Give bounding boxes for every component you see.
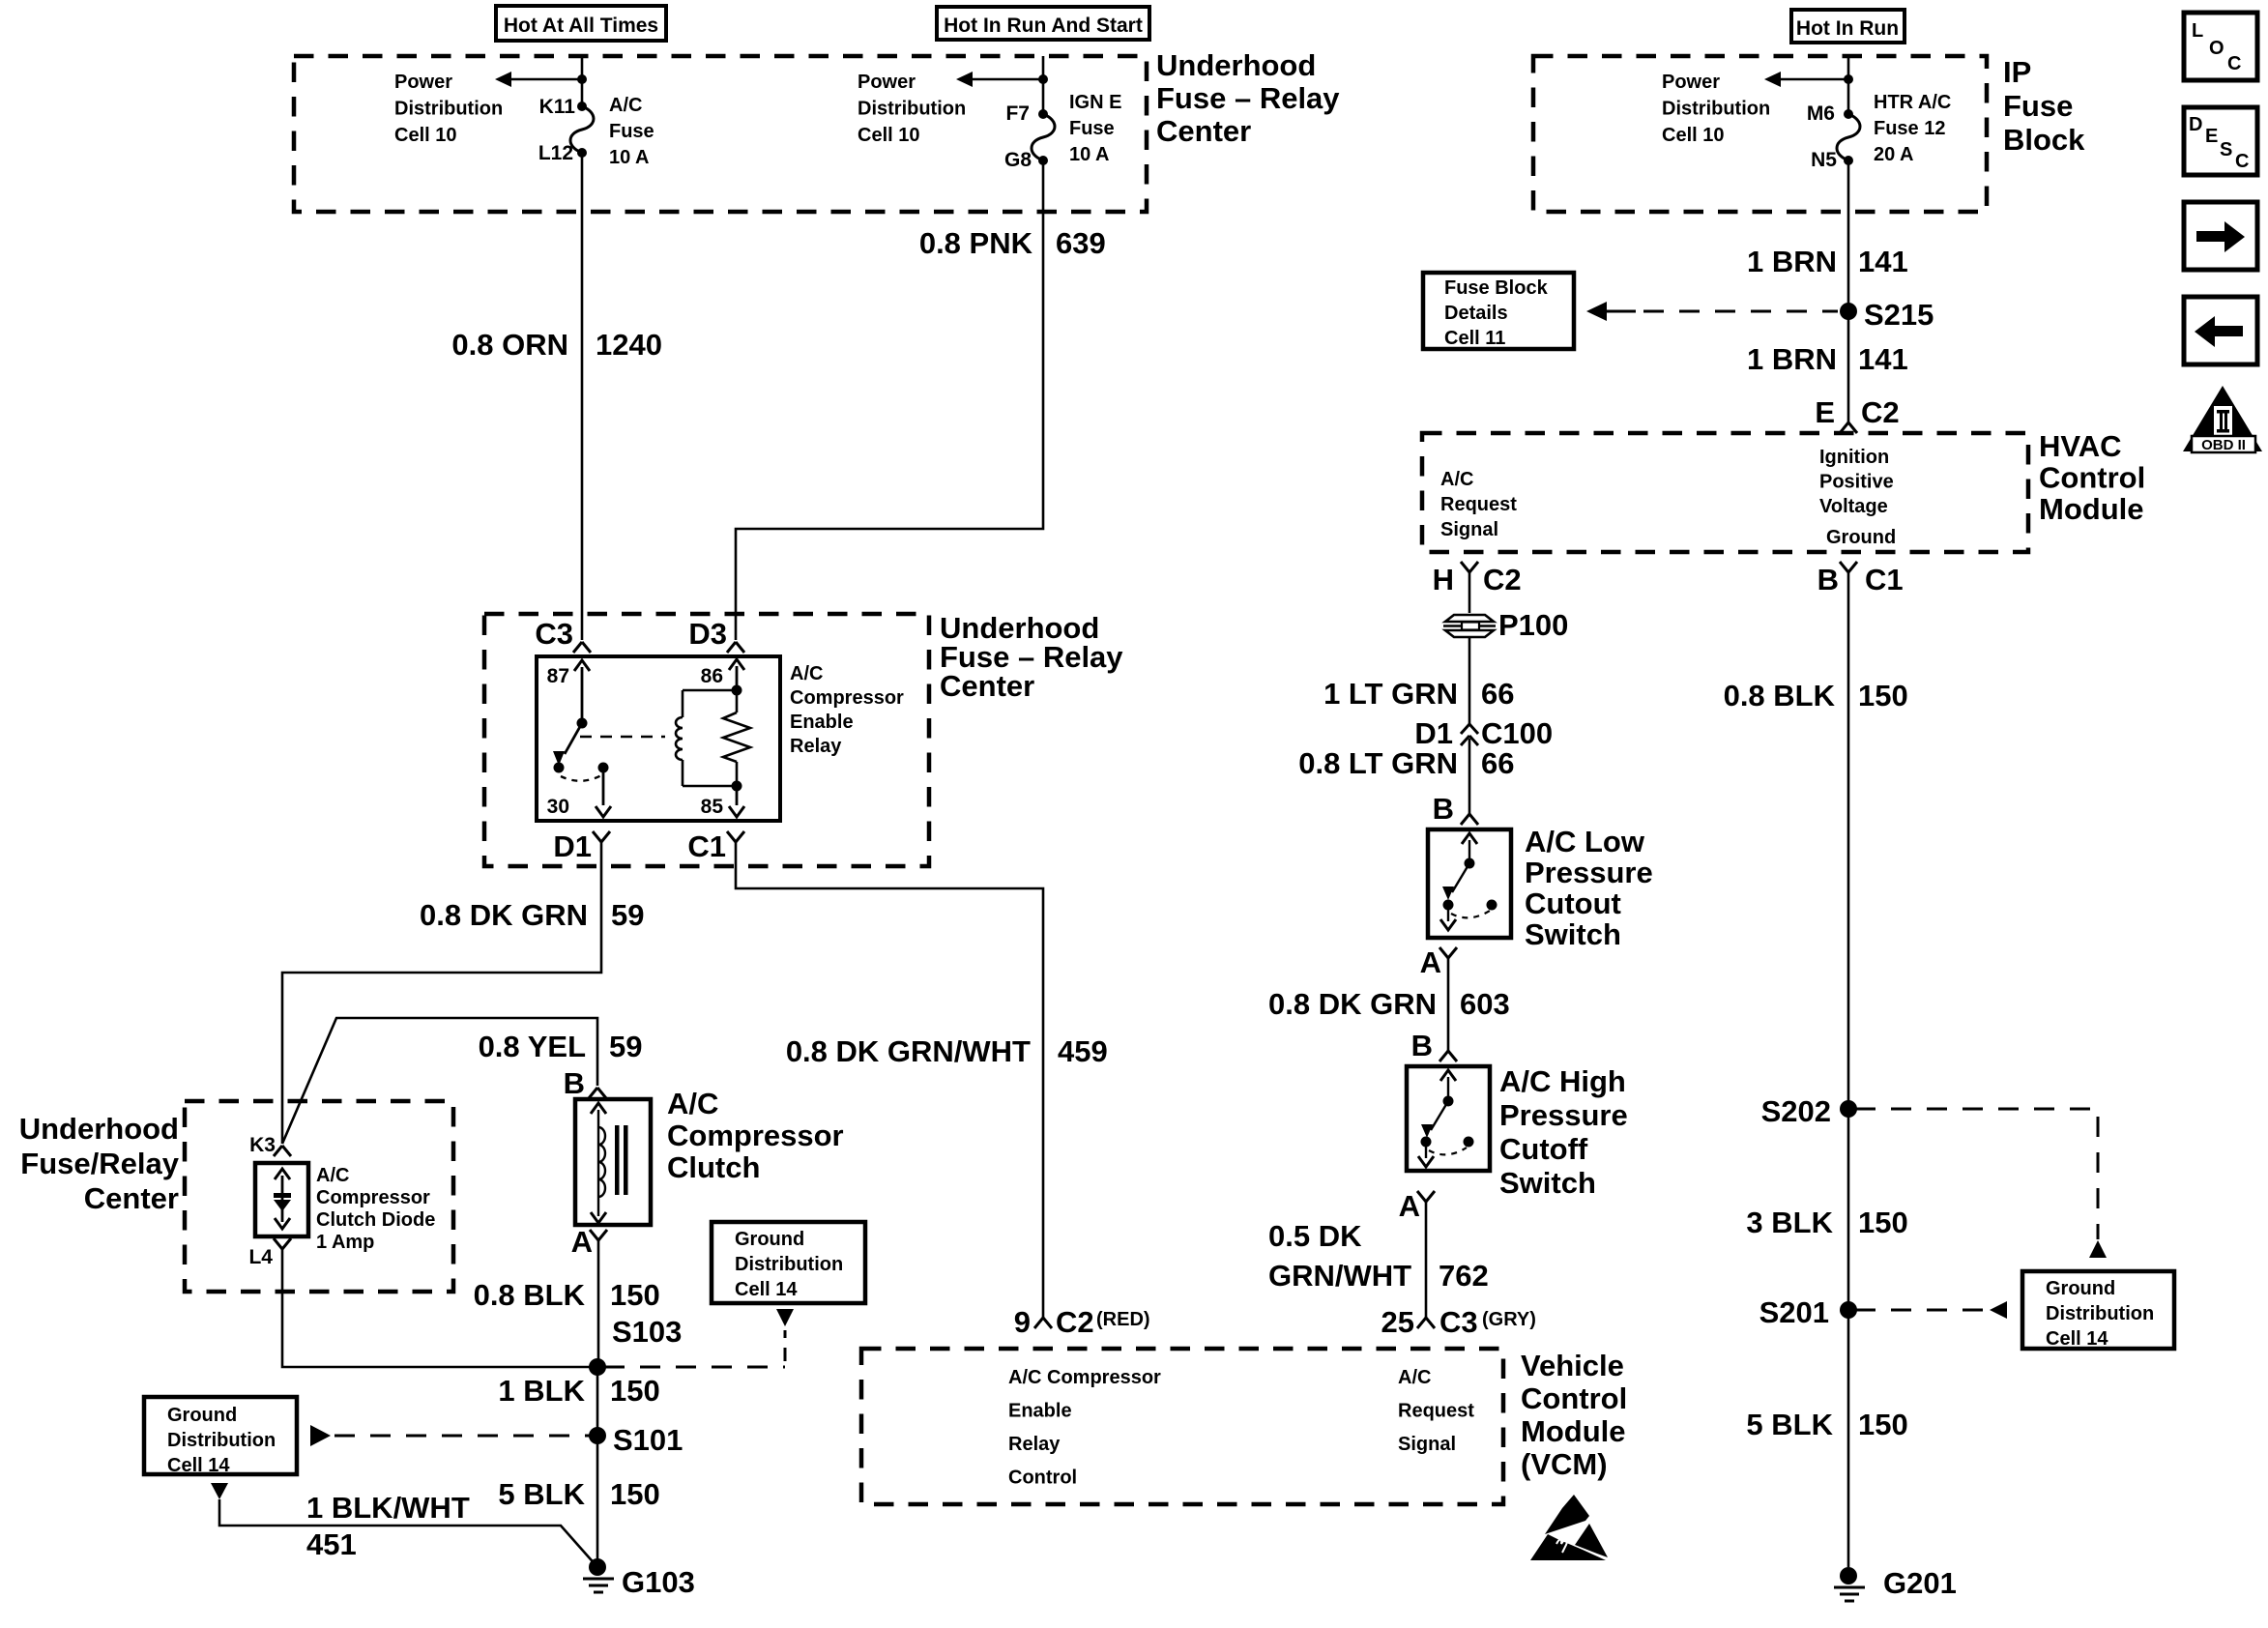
svg-text:A/C: A/C — [1440, 469, 1473, 490]
wire fuse feed A/C — [581, 56, 584, 106]
junction dot IGN E feed — [1038, 74, 1048, 84]
svg-text:S202: S202 — [1761, 1094, 1831, 1128]
icon box arrow left — [2184, 297, 2257, 364]
svg-text:10 A: 10 A — [609, 147, 650, 168]
svg-text:Cutoff: Cutoff — [1499, 1132, 1588, 1166]
svg-text:Control: Control — [1521, 1381, 1627, 1415]
svg-text:Clutch: Clutch — [667, 1150, 760, 1184]
svg-text:1 LT GRN: 1 LT GRN — [1323, 677, 1458, 711]
svg-text:Pressure: Pressure — [1525, 856, 1653, 889]
svg-text:150: 150 — [610, 1278, 660, 1312]
high switch dashed arc — [1429, 1148, 1467, 1154]
connector A chevron high switch — [1417, 1191, 1435, 1202]
svg-text:(VCM): (VCM) — [1521, 1447, 1608, 1481]
svg-text:Power: Power — [858, 72, 916, 93]
connector 9 C2 chevron — [1034, 1318, 1052, 1328]
wire 1 BLK/WHT 451 — [219, 1499, 597, 1567]
svg-text:Clutch Diode: Clutch Diode — [316, 1209, 435, 1231]
svg-text:A/C: A/C — [790, 663, 823, 684]
switch box A/C Low Pressure Cutout Switch — [1428, 829, 1511, 938]
high switch arm — [1431, 1101, 1448, 1130]
connector D1 chevron — [593, 831, 610, 842]
box Fuse Block Details Cell 11 — [1423, 273, 1574, 349]
arrow to Fuse Block Details — [1586, 302, 1607, 321]
svg-text:Request: Request — [1440, 494, 1517, 515]
svg-text:IP: IP — [2003, 55, 2031, 89]
arrow from Ground Distribution (left) to S101 — [310, 1425, 331, 1446]
wire to power distribution arrow (IP) — [1781, 78, 1848, 81]
svg-text:Compressor: Compressor — [316, 1187, 430, 1208]
dashed leader to S101 — [334, 1435, 591, 1438]
svg-text:Cell 10: Cell 10 — [858, 125, 919, 146]
relay contact dashed arc — [561, 775, 601, 781]
svg-text:S215: S215 — [1864, 298, 1934, 332]
svg-text:0.8 PNK: 0.8 PNK — [919, 226, 1033, 260]
dashed box HVAC Control Module — [1422, 433, 2028, 552]
arrow to Ground Distribution Cell 14 (right) — [2089, 1240, 2107, 1258]
wire 0.8 ORN 1240 — [581, 153, 584, 640]
svg-text:Fuse: Fuse — [609, 121, 654, 142]
dashed leader S215 to Fuse Block Details — [1643, 310, 1838, 313]
inline connector D1 C100 — [1461, 724, 1478, 745]
svg-text:S103: S103 — [612, 1315, 682, 1349]
clutch coil L2 — [598, 1127, 605, 1197]
svg-text:Hot In Run And Start: Hot In Run And Start — [944, 15, 1143, 37]
svg-text:Distribution: Distribution — [394, 99, 503, 120]
svg-text:A: A — [1399, 1189, 1420, 1223]
low switch left contact dot — [1443, 900, 1454, 911]
svg-text:HVAC: HVAC — [2039, 429, 2122, 463]
box Ground Distribution Cell 14 (left) — [144, 1397, 297, 1474]
dashed leader S202 — [1855, 1108, 2098, 1111]
clutch coil lead — [597, 1110, 599, 1216]
svg-text:A/C: A/C — [609, 95, 642, 116]
svg-text:Power: Power — [1662, 72, 1720, 93]
svg-text:Underhood: Underhood — [1156, 48, 1316, 82]
connector B C1 chevron — [1840, 562, 1857, 572]
svg-text:D1: D1 — [553, 829, 592, 863]
relay box A/C Compressor Enable Relay — [537, 656, 780, 821]
svg-text:M6: M6 — [1807, 102, 1835, 125]
icon box LOC — [2184, 13, 2257, 80]
svg-text:603: 603 — [1460, 987, 1510, 1021]
wire to power distribution arrow (right) — [973, 78, 1043, 81]
ESD sensitive symbol — [1545, 1495, 1589, 1534]
low switch arm — [1452, 863, 1469, 892]
svg-text:1 BLK/WHT: 1 BLK/WHT — [306, 1491, 470, 1525]
svg-text:150: 150 — [610, 1374, 660, 1408]
svg-text:Vehicle: Vehicle — [1521, 1349, 1624, 1382]
svg-text:5 BLK: 5 BLK — [1746, 1408, 1833, 1441]
ground G103 — [589, 1558, 606, 1576]
svg-text:Switch: Switch — [1525, 917, 1621, 951]
dashed box Underhood Fuse-Relay Center (top) — [294, 56, 1147, 212]
clutch plates — [615, 1125, 620, 1195]
high switch lower lead — [1425, 1142, 1427, 1158]
svg-text:A: A — [571, 1225, 593, 1259]
dashed box Underhood Fuse/Relay Center (diode) — [185, 1101, 453, 1292]
svg-text:141: 141 — [1858, 245, 1908, 278]
svg-text:OBD II: OBD II — [2201, 437, 2246, 453]
svg-text:B: B — [1433, 792, 1454, 826]
svg-text:(GRY): (GRY) — [1482, 1309, 1536, 1330]
connector D3 chevron — [727, 642, 744, 653]
relay coil connections — [683, 690, 737, 786]
svg-text:1240: 1240 — [596, 328, 662, 362]
wire 0.5 DK GRN/WHT 762 — [1425, 1202, 1428, 1318]
label box Hot At All Times — [496, 6, 666, 41]
svg-text:O: O — [2209, 38, 2224, 59]
box Ground Distribution Cell 14 (right) — [2022, 1271, 2174, 1349]
connector L4 chevron — [274, 1238, 291, 1249]
high switch left contact dot — [1421, 1137, 1432, 1148]
svg-text:GRN/WHT: GRN/WHT — [1268, 1259, 1411, 1293]
svg-text:S101: S101 — [613, 1423, 683, 1457]
fuse F1 A/C Fuse 10A — [570, 106, 594, 153]
svg-text:0.8 DK GRN: 0.8 DK GRN — [1268, 987, 1437, 1021]
high switch right contact dot — [1464, 1137, 1474, 1148]
svg-text:G201: G201 — [1883, 1566, 1957, 1600]
wire 1 BRN 141 (upper) — [1847, 160, 1850, 422]
svg-text:150: 150 — [1858, 679, 1908, 712]
diode lead — [281, 1176, 284, 1222]
low switch pivot dot — [1465, 858, 1475, 869]
svg-text:639: 639 — [1056, 226, 1106, 260]
svg-text:Distribution: Distribution — [1662, 99, 1770, 120]
svg-text:C100: C100 — [1481, 716, 1553, 750]
svg-text:5 BLK: 5 BLK — [498, 1477, 585, 1511]
svg-text:C: C — [2227, 53, 2241, 74]
high switch upper lead — [1447, 1077, 1449, 1101]
svg-text:0.8 BLK: 0.8 BLK — [474, 1278, 586, 1312]
switch box A/C High Pressure Cutoff Switch — [1407, 1066, 1490, 1171]
svg-text:59: 59 — [611, 898, 644, 932]
svg-text:Details: Details — [1444, 303, 1508, 324]
fuse F2 IGN E Fuse 10A — [1032, 114, 1055, 160]
wire 0.8 BLK 150 / 3 BLK / 5 BLK ground run — [1847, 572, 1850, 1567]
splice S101 — [589, 1427, 606, 1444]
connector B chevron low switch — [1461, 814, 1478, 825]
svg-text:Enable: Enable — [790, 712, 854, 733]
relay switch arm — [565, 723, 582, 754]
connector C3 chevron — [573, 642, 591, 653]
svg-text:N5: N5 — [1811, 149, 1837, 171]
svg-text:C2: C2 — [1483, 563, 1522, 596]
wire 5 BLK 150 — [596, 1436, 599, 1567]
relay actuation dashed link — [580, 736, 665, 738]
svg-text:9: 9 — [1014, 1305, 1031, 1339]
svg-text:L4: L4 — [248, 1246, 273, 1268]
svg-text:59: 59 — [609, 1030, 642, 1063]
label box Hot In Run — [1791, 10, 1905, 43]
svg-text:B: B — [1817, 563, 1839, 596]
svg-text:Distribution: Distribution — [167, 1430, 276, 1451]
svg-text:1 BLK: 1 BLK — [498, 1374, 585, 1408]
connector 25 C3 chevron — [1417, 1318, 1435, 1328]
svg-text:A/C: A/C — [667, 1087, 718, 1120]
svg-text:S: S — [2220, 139, 2232, 160]
svg-text:D1: D1 — [1414, 716, 1453, 750]
svg-text:Ground: Ground — [735, 1229, 804, 1250]
connector C1 chevron — [727, 831, 744, 842]
svg-text:HTR A/C: HTR A/C — [1874, 92, 1951, 113]
connector K3 chevron — [274, 1146, 291, 1156]
svg-text:459: 459 — [1058, 1034, 1108, 1068]
svg-text:Cell 11: Cell 11 — [1444, 328, 1505, 349]
wire fuse feed IGN E — [1042, 56, 1045, 114]
svg-text:Cell 14: Cell 14 — [735, 1279, 798, 1300]
high switch pivot dot — [1443, 1096, 1454, 1107]
diode box A/C Compressor Clutch Diode — [255, 1163, 308, 1236]
svg-text:F7: F7 — [1005, 102, 1030, 125]
svg-text:Cell 14: Cell 14 — [2046, 1328, 2108, 1350]
diode D1 symbol — [274, 1193, 291, 1198]
relay contact pivot dot — [577, 718, 588, 729]
svg-text:C1: C1 — [1865, 563, 1904, 596]
svg-text:Compressor: Compressor — [790, 687, 904, 709]
splice S202 — [1840, 1100, 1857, 1118]
svg-text:Module: Module — [2039, 492, 2144, 526]
low switch right contact dot — [1487, 900, 1497, 911]
pass-through grommet P100 — [1445, 615, 1494, 637]
svg-text:Voltage: Voltage — [1819, 496, 1888, 517]
svg-text:25: 25 — [1381, 1305, 1414, 1339]
svg-text:0.8 ORN: 0.8 ORN — [451, 328, 568, 362]
arrow from Ground Distribution (left) down — [211, 1483, 228, 1499]
dashed leader S103 to Ground Distribution — [604, 1366, 785, 1369]
svg-text:66: 66 — [1481, 746, 1514, 780]
svg-text:Underhood: Underhood — [19, 1112, 179, 1146]
svg-text:451: 451 — [306, 1527, 357, 1561]
svg-text:Ground: Ground — [1826, 527, 1896, 548]
svg-text:Signal: Signal — [1440, 519, 1498, 540]
OBD II triangle icon — [2183, 386, 2262, 451]
svg-text:Cutout: Cutout — [1525, 887, 1621, 920]
svg-text:Distribution: Distribution — [735, 1254, 843, 1275]
relay resistor R1 zigzag — [723, 690, 750, 786]
wire 1 BLK 150 — [596, 1367, 599, 1436]
relay pin 85 lead — [736, 786, 739, 805]
relay contact 30 dot — [598, 763, 609, 773]
wire 0.8 PNK 639 — [736, 160, 1043, 640]
connector E C2 chevron — [1840, 422, 1857, 433]
svg-text:30: 30 — [547, 796, 569, 818]
coil-resistor top dot — [732, 685, 742, 696]
svg-text:762: 762 — [1439, 1259, 1489, 1293]
svg-text:Ground: Ground — [2046, 1278, 2115, 1299]
wire 0.8 LT GRN 66 — [1468, 739, 1471, 814]
svg-text:E: E — [1815, 395, 1835, 429]
dashed leader S201 — [1855, 1309, 1984, 1312]
svg-text:C3: C3 — [1439, 1305, 1478, 1339]
relay pin 86 lead — [736, 666, 739, 690]
svg-text:D3: D3 — [688, 617, 727, 651]
svg-text:Distribution: Distribution — [2046, 1303, 2154, 1324]
svg-text:1 BRN: 1 BRN — [1747, 342, 1837, 376]
svg-text:H: H — [1433, 563, 1454, 596]
svg-text:Compressor: Compressor — [667, 1119, 844, 1152]
svg-text:L12: L12 — [538, 142, 573, 164]
svg-text:A/C Low: A/C Low — [1525, 825, 1645, 858]
svg-text:C2: C2 — [1056, 1305, 1094, 1339]
wire 0.8 BLK 150 (clutch ground) — [597, 1240, 600, 1367]
svg-text:Fuse: Fuse — [2003, 89, 2073, 123]
svg-text:85: 85 — [701, 796, 724, 818]
low switch dashed arc — [1451, 911, 1490, 917]
svg-text:Power: Power — [394, 72, 452, 93]
label box Hot In Run And Start — [937, 7, 1149, 40]
svg-text:E: E — [2205, 126, 2218, 147]
relay coil L1 — [676, 717, 683, 760]
coil-resistor bottom dot — [732, 781, 742, 792]
svg-text:Cell 14: Cell 14 — [167, 1455, 230, 1476]
svg-text:Switch: Switch — [1499, 1166, 1596, 1200]
svg-text:Control: Control — [1008, 1468, 1077, 1489]
connector A chevron low switch — [1439, 947, 1457, 958]
fuse F3 HTR A/C Fuse 12 20A — [1837, 114, 1860, 160]
connector H C2 chevron — [1461, 562, 1478, 572]
wire 0.8 DK GRN 59 — [282, 842, 601, 1144]
svg-text:Pressure: Pressure — [1499, 1098, 1628, 1132]
svg-text:Control: Control — [2039, 461, 2145, 495]
svg-text:D: D — [2189, 114, 2202, 135]
svg-text:Positive: Positive — [1819, 472, 1894, 493]
svg-text:0.8 BLK: 0.8 BLK — [1724, 679, 1836, 712]
svg-text:Distribution: Distribution — [858, 99, 966, 120]
wire 0.8 DK GRN/WHT 459 — [736, 842, 1043, 1318]
wire 1 LT GRN 66 — [1468, 638, 1471, 724]
svg-text:Block: Block — [2003, 123, 2085, 157]
ground symbol G103 — [583, 1579, 614, 1592]
clutch box A/C Compressor Clutch — [575, 1099, 651, 1225]
svg-text:Fuse – Relay: Fuse – Relay — [1156, 81, 1340, 115]
svg-text:Center: Center — [84, 1181, 179, 1215]
svg-text:A/C: A/C — [316, 1165, 349, 1186]
relay pin 30 lead — [602, 768, 605, 805]
svg-text:Enable: Enable — [1008, 1401, 1072, 1422]
svg-text:L: L — [2192, 20, 2203, 42]
connector B chevron high switch — [1439, 1051, 1457, 1061]
svg-text:Fuse 12: Fuse 12 — [1874, 118, 1945, 139]
wire to power distribution arrow (left) — [511, 78, 582, 81]
connector A chevron clutch — [590, 1230, 607, 1240]
svg-text:G8: G8 — [1004, 149, 1032, 171]
wire fuse feed HTR A/C — [1847, 56, 1850, 114]
svg-text:Hot In Run: Hot In Run — [1796, 17, 1899, 40]
svg-text:IGN E: IGN E — [1069, 92, 1121, 113]
box Ground Distribution Cell 14 (mid) — [712, 1222, 865, 1303]
svg-text:0.8 DK GRN: 0.8 DK GRN — [420, 898, 588, 932]
svg-text:150: 150 — [1858, 1206, 1908, 1239]
svg-text:G103: G103 — [622, 1565, 695, 1599]
wire L4 to S103 — [282, 1249, 591, 1367]
splice S215 — [1840, 303, 1857, 320]
svg-text:(RED): (RED) — [1096, 1309, 1150, 1330]
dashed box Underhood Fuse-Relay Center (relay) — [484, 614, 929, 866]
svg-text:150: 150 — [610, 1477, 660, 1511]
svg-text:0.8 YEL: 0.8 YEL — [479, 1030, 586, 1063]
svg-text:Ignition: Ignition — [1819, 447, 1889, 468]
svg-text:C1: C1 — [687, 829, 726, 863]
svg-text:1 BRN: 1 BRN — [1747, 245, 1837, 278]
svg-text:P100: P100 — [1498, 608, 1568, 642]
svg-text:Fuse/Relay: Fuse/Relay — [20, 1147, 179, 1180]
svg-text:Cell 10: Cell 10 — [394, 125, 456, 146]
svg-text:A/C Compressor: A/C Compressor — [1008, 1367, 1161, 1388]
relay contact 30-side dot — [554, 763, 565, 773]
junction dot A/C feed — [577, 74, 587, 84]
svg-text:20 A: 20 A — [1874, 144, 1914, 165]
icon box arrow right — [2184, 202, 2257, 270]
dashed box Vehicle Control Module — [861, 1349, 1503, 1504]
svg-text:Cell 10: Cell 10 — [1662, 125, 1724, 146]
svg-text:Hot At All Times: Hot At All Times — [504, 15, 658, 37]
svg-text:141: 141 — [1858, 342, 1908, 376]
arrow to Ground Distribution Cell 14 (mid) — [776, 1309, 794, 1326]
svg-text:0.8 DK GRN/WHT: 0.8 DK GRN/WHT — [786, 1034, 1031, 1068]
svg-text:A/C High: A/C High — [1499, 1064, 1626, 1098]
svg-text:3 BLK: 3 BLK — [1746, 1206, 1833, 1239]
svg-text:C2: C2 — [1861, 395, 1900, 429]
svg-text:A/C: A/C — [1398, 1367, 1431, 1388]
wire 0.8 YEL 59 — [282, 1018, 597, 1144]
wire 0.8 DK GRN 603 — [1447, 958, 1450, 1051]
svg-text:Fuse: Fuse — [1069, 118, 1115, 139]
svg-text:Ground: Ground — [167, 1405, 237, 1426]
low switch lower lead — [1447, 905, 1449, 921]
svg-text:0.8 LT GRN: 0.8 LT GRN — [1298, 746, 1458, 780]
svg-text:0.5 DK: 0.5 DK — [1268, 1219, 1362, 1253]
icon box DESC — [2184, 107, 2257, 175]
svg-text:10 A: 10 A — [1069, 144, 1110, 165]
svg-text:Center: Center — [1156, 114, 1251, 148]
connector B chevron clutch — [589, 1088, 606, 1098]
junction dot HTR A/C feed — [1844, 74, 1853, 84]
wire H C2 to P100 — [1468, 572, 1471, 613]
low switch upper lead — [1468, 840, 1470, 863]
svg-text:1 Amp: 1 Amp — [316, 1232, 374, 1253]
arrow to Ground Distribution Cell 14 (right) left-pointing — [1990, 1301, 2007, 1319]
svg-text:Request: Request — [1398, 1401, 1474, 1422]
svg-text:Relay: Relay — [1008, 1434, 1061, 1455]
svg-text:Fuse Block: Fuse Block — [1444, 277, 1549, 299]
splice S201 — [1840, 1301, 1857, 1319]
svg-text:S201: S201 — [1759, 1295, 1829, 1329]
svg-text:66: 66 — [1481, 677, 1514, 711]
splice S103 — [589, 1358, 606, 1376]
svg-text:Module: Module — [1521, 1414, 1626, 1448]
svg-text:B: B — [1411, 1029, 1433, 1062]
svg-text:B: B — [564, 1066, 585, 1100]
svg-text:A: A — [1420, 945, 1441, 979]
ground symbol G201 — [1834, 1587, 1865, 1601]
svg-text:150: 150 — [1858, 1408, 1908, 1441]
svg-text:Center: Center — [940, 669, 1034, 703]
svg-text:K3: K3 — [249, 1134, 276, 1156]
svg-text:C3: C3 — [535, 617, 573, 651]
svg-text:86: 86 — [701, 665, 723, 687]
relay pin 87 lead — [581, 667, 584, 723]
svg-text:87: 87 — [547, 665, 569, 687]
svg-text:C: C — [2235, 151, 2249, 172]
dashed box IP Fuse Block — [1533, 56, 1987, 212]
svg-text:Signal: Signal — [1398, 1434, 1456, 1455]
svg-text:K11: K11 — [539, 96, 576, 118]
svg-text:Relay: Relay — [790, 736, 842, 757]
ground G201 — [1840, 1567, 1857, 1584]
